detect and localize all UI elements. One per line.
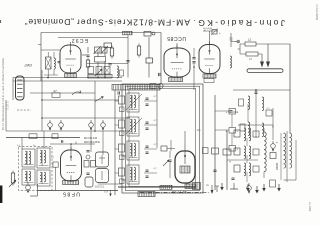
hatch box bottom [138, 192, 155, 197]
wire ant v2 [267, 44, 269, 63]
choke L5 [264, 128, 266, 178]
small circle J2 [150, 83, 163, 88]
resistor R3 [95, 57, 106, 63]
resistor R2 [86, 58, 89, 70]
scan edge mark [0, 186, 2, 204]
note text [84, 136, 100, 144]
wire v42 [41, 70, 43, 131]
label 12R50 (rotated) [171, 190, 187, 195]
wire mid bottom [98, 183, 122, 185]
electrolytic C23 [101, 120, 106, 131]
wavy coupling arrow [72, 90, 81, 95]
wire t5 left [169, 151, 171, 178]
wire ant r [0, 0, 1, 1]
wire v215 [214, 95, 216, 190]
hatch base V2 [169, 78, 183, 82]
chassis dash-dot line [140, 191, 210, 193]
can K3 [85, 177, 93, 187]
resistor R11 [0, 0, 1, 1]
potentiometer P1 [9, 171, 16, 188]
coil L7 [230, 56, 232, 68]
resistor R4 [104, 43, 112, 48]
capacitor C9 [118, 91, 119, 94]
resistor R8 [236, 38, 290, 47]
capacitor C8 [230, 33, 233, 47]
svg-text:EC92: EC92 [71, 37, 88, 43]
wire y118 [42, 117, 130, 119]
box K8 [270, 180, 276, 187]
wire lower bus [6, 134, 80, 139]
wire v125 [127, 37, 129, 77]
tuning arrow 2 [95, 97, 104, 102]
component mT2 [215, 186, 219, 192]
capacitor C10 [228, 111, 238, 113]
resistor R12 [84, 161, 89, 168]
battery stack B1 [16, 76, 25, 100]
capacitor C17 [58, 62, 61, 63]
wire t5 top [184, 131, 186, 145]
wire t23 top [177, 31, 218, 48]
component K1 [144, 32, 155, 37]
component mT [206, 183, 214, 194]
ground G3 [255, 186, 259, 194]
tube V1 EC92 [60, 42, 81, 73]
svg-text:0m: 0m [197, 129, 200, 132]
plus mark [229, 160, 231, 164]
electrolytic C24 [17, 145, 55, 193]
component circle K6 [86, 155, 90, 159]
box left of V4 [53, 162, 58, 191]
wire t4 top [50, 140, 95, 150]
coil unit L4 [234, 163, 259, 176]
label UF85 (rotated) [62, 191, 80, 197]
resistor R4b [110, 46, 113, 59]
wire v88 [87, 47, 89, 78]
svg-text:Lfd.Nr.1402811: Lfd.Nr.1402811 [315, 4, 318, 21]
capacitor C1 [86, 55, 89, 56]
capacitor C11 [86, 151, 89, 152]
capacitor C15 [231, 178, 234, 179]
wire y100 [42, 99, 118, 101]
wire ot right [284, 140, 297, 180]
hatch base V3 [203, 74, 216, 83]
IF transformer Tr9 [22, 169, 35, 185]
box on v227 [223, 149, 231, 155]
wire y131 [6, 130, 130, 132]
wire ant v1 [261, 54, 263, 63]
svg-text:WM 234-48 E: WM 234-48 E [84, 140, 100, 144]
wire ant l [238, 44, 241, 54]
component group D2 [215, 128, 239, 134]
hatch base V1 [65, 74, 77, 78]
box chassis inner [129, 88, 196, 186]
coil unit L2 [234, 128, 259, 141]
tube V3 UCC85b [199, 42, 220, 74]
wire v22 [21, 138, 23, 150]
box K7 [203, 148, 209, 154]
right margin note 2 [308, 202, 311, 212]
wire k h2 [227, 159, 258, 161]
hatch box top [123, 31, 133, 37]
label UCC85 (rotated) [167, 35, 186, 41]
wire v149 [148, 37, 150, 77]
svg-text:Bo-Nr. Mikrofotokopie d. US-kl: Bo-Nr. Mikrofotokopie d. US-kl. u. Ausl.… [1, 57, 5, 130]
resistor R7 [52, 89, 60, 98]
svg-text:27: 27 [54, 89, 58, 93]
wire lower bottom [38, 186, 118, 197]
svg-text:UCC85: UCC85 [167, 35, 186, 41]
wire j top [233, 90, 290, 138]
dashed dial cord [17, 109, 31, 111]
capacitor C8b [237, 40, 240, 43]
wire mid v [91, 131, 103, 155]
ground G6 [277, 184, 281, 192]
hatch base V5 [185, 184, 196, 189]
coil L1 [54, 52, 55, 75]
wire v44 [43, 131, 45, 148]
box row b3 [104, 67, 110, 75]
svg-text:UF85: UF85 [62, 191, 80, 197]
wire j v [248, 104, 273, 128]
wire right rail [289, 44, 291, 125]
IF transformer Tr3 [115, 141, 157, 160]
wire v194 [193, 48, 195, 90]
svg-text:AM-FM-8/12Kreis-Super: AM-FM-8/12Kreis-Super [76, 18, 190, 28]
ground G1 [220, 183, 224, 191]
bandswitch hatch [88, 75, 112, 79]
box chassis mid [126, 86, 200, 190]
antenna arrow 2 [266, 62, 270, 68]
wire if right rail [156, 90, 158, 148]
resistor R5 [137, 44, 140, 58]
wire bus2 [13, 77, 122, 79]
dashed section box [19, 147, 53, 191]
IF transformer Tr4 [115, 165, 157, 184]
wire if left rail [114, 90, 116, 195]
component group D3 [226, 146, 239, 152]
resistor R1 [46, 52, 52, 78]
tick mark [38, 44, 41, 46]
can K4 [96, 152, 109, 167]
box FM tuner top [41, 32, 161, 34]
resistor R10 [0, 0, 1, 1]
antenna bar [247, 69, 283, 73]
IF transformer Tr7 [22, 149, 35, 167]
svg-text:D. 20. 5.: D. 20. 5. [7, 101, 10, 110]
capacitor C5 [192, 58, 195, 59]
ground G4 [262, 184, 266, 192]
wire mid [30, 92, 95, 94]
svg-text:GW7: GW7 [24, 63, 32, 67]
can K5 [96, 169, 109, 183]
resistor R6 [146, 58, 153, 63]
hatch base V4 [63, 181, 79, 185]
coil unit L3 [234, 146, 259, 159]
svg-text:+: + [229, 160, 231, 164]
node j3 [255, 89, 257, 91]
wire v95 [94, 81, 96, 131]
antenna arrow 1 [260, 62, 264, 68]
output transformer [275, 131, 292, 182]
wire v105 [104, 48, 106, 78]
coil L6 [117, 66, 124, 78]
svg-text:ca. 1956: ca. 1956 [308, 202, 311, 212]
wire v95 [97, 51, 99, 78]
label GW7 [24, 63, 32, 67]
right margin note [315, 4, 318, 21]
left margin note [1, 57, 5, 130]
capacitor C16 [159, 73, 160, 76]
component group D1 [215, 109, 239, 115]
tuning gang [112, 85, 160, 91]
wire k h [238, 125, 273, 140]
trimmer C2b [101, 46, 109, 54]
electrolytic C21 [59, 120, 64, 131]
wire y63 [87, 63, 128, 65]
trimmer C7 [204, 28, 221, 35]
left margin note 2 [7, 101, 10, 110]
ground G2 [246, 184, 250, 192]
IF transformer Tr1 [115, 93, 157, 112]
box chassis outer [122, 84, 203, 193]
svg-text:+: + [276, 141, 278, 145]
svg-text:„Dominate“: „Dominate“ [24, 17, 74, 27]
resistor R9 [240, 52, 262, 61]
hatch box speaker [193, 183, 201, 190]
capacitor C6 [192, 62, 195, 63]
arrow left of T5 [163, 160, 169, 166]
wire inner top [58, 37, 128, 39]
electrolytic C26 [247, 183, 252, 194]
resistor R13 [91, 161, 96, 168]
IF transformer Tr6 [240, 122, 264, 137]
resistor R16 [270, 153, 276, 159]
wire k2 [231, 114, 233, 146]
IF transformer Tr5 [239, 92, 273, 116]
scan edge mark top [0, 20, 1, 23]
wire v6 [5, 100, 7, 131]
electrolytic C25 [271, 141, 278, 152]
box row b1 [88, 67, 94, 74]
wire t1 left [41, 49, 60, 51]
label 0m [197, 129, 200, 132]
wire y42r [231, 41, 240, 43]
node j1 [41, 77, 106, 132]
T-bar ground [230, 183, 238, 189]
wire ot top [289, 125, 291, 133]
capacitor C14 [213, 170, 216, 171]
svg-text:250Ω: 250Ω [275, 162, 279, 170]
title John-Radio-KG AM-FM-8/12Kreis-Super Dominate (rotated) [24, 17, 285, 30]
svg-text:12 R 50: 12 R 50 [171, 190, 187, 195]
wire bar [118, 185, 196, 189]
wire t1 right [82, 54, 88, 56]
tube V4 UF85 [61, 147, 82, 181]
box corner [30, 184, 38, 196]
wire t1 drop [44, 74, 58, 76]
svg-text:L2: L2 [248, 38, 252, 42]
IF transformer Tr2 [115, 117, 157, 136]
capacitor C13 [168, 160, 171, 161]
IF transformer Tr10 [37, 170, 50, 186]
wire k v2 [246, 138, 248, 182]
IF transformer Tr8 [37, 148, 50, 168]
box FM tuner left [40, 33, 42, 82]
wire bus3 [13, 80, 122, 82]
tube V5 UL84 [175, 145, 195, 183]
wire v227 [226, 130, 228, 190]
electrolytic C20 [48, 120, 53, 131]
wire left drop2 [12, 78, 14, 101]
box row b2 [95, 67, 102, 77]
label EC92 (rotated) [71, 37, 88, 43]
capacitor C4 [126, 61, 129, 62]
box FM tuner right [160, 33, 162, 85]
electrolytic C22 [89, 120, 94, 131]
capacitor C3 [108, 64, 111, 65]
svg-text:161 K12: 161 K12 [95, 186, 105, 189]
component left of T5 a [161, 140, 175, 151]
capacitor C12 [86, 173, 89, 174]
trimmer C2 [94, 46, 102, 54]
box on v215 [212, 148, 219, 154]
tube V2 UCC85a [164, 45, 190, 77]
